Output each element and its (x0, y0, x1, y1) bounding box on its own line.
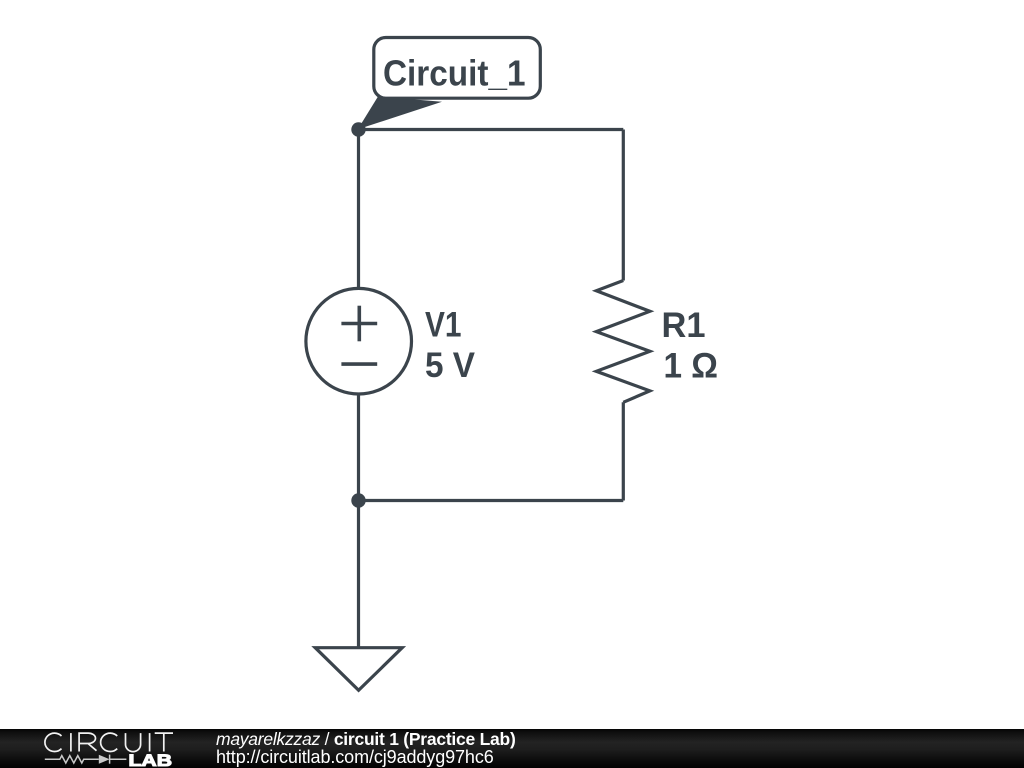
footer bar (0, 729, 1024, 768)
wire top (node A to top-right corner) (359, 128, 624, 131)
wire V1 bottom to node B (357, 394, 360, 501)
logo resistor zigzag (45, 755, 127, 764)
wire bottom (bottom-right corner to node B) (359, 499, 624, 502)
footer text (216, 730, 516, 768)
svg-text:LAB: LAB (129, 751, 173, 768)
CircuitLab logo wordmark (0, 729, 200, 768)
svg-text:V1: V1 (425, 305, 462, 344)
svg-text:R1: R1 (662, 306, 706, 345)
wire right vertical (corner to resistor top lead) (622, 130, 625, 281)
svg-text:Circuit_1: Circuit_1 (383, 53, 526, 94)
svg-text:1 Ω: 1 Ω (664, 346, 719, 385)
logo letter T (155, 733, 173, 751)
logo diode triangle (99, 755, 110, 764)
svg-text:5 V: 5 V (425, 346, 476, 385)
V1 plus sign (341, 306, 377, 342)
wire resistor bottom lead (622, 402, 625, 500)
node A junction dot (351, 122, 365, 136)
callout tail (358, 97, 442, 130)
logo letter R (79, 733, 96, 751)
ground symbol (315, 648, 402, 691)
logo letter I1 (70, 733, 72, 751)
logo diode wire (110, 758, 127, 760)
logo letter C1 (45, 733, 62, 751)
node B junction dot (351, 493, 365, 507)
voltage source V1 circle (306, 288, 412, 394)
wire node B down to ground (357, 501, 360, 648)
V1 minus sign (341, 362, 377, 366)
logo letter U (126, 733, 141, 752)
logo letter I2 (149, 733, 151, 751)
logo letter C2 (101, 733, 118, 751)
callout bubble Circuit_1 (374, 38, 541, 99)
wire node A down to V1 top (357, 130, 360, 289)
logo diode cathode bar (109, 755, 111, 764)
resistor R1 (596, 281, 650, 403)
